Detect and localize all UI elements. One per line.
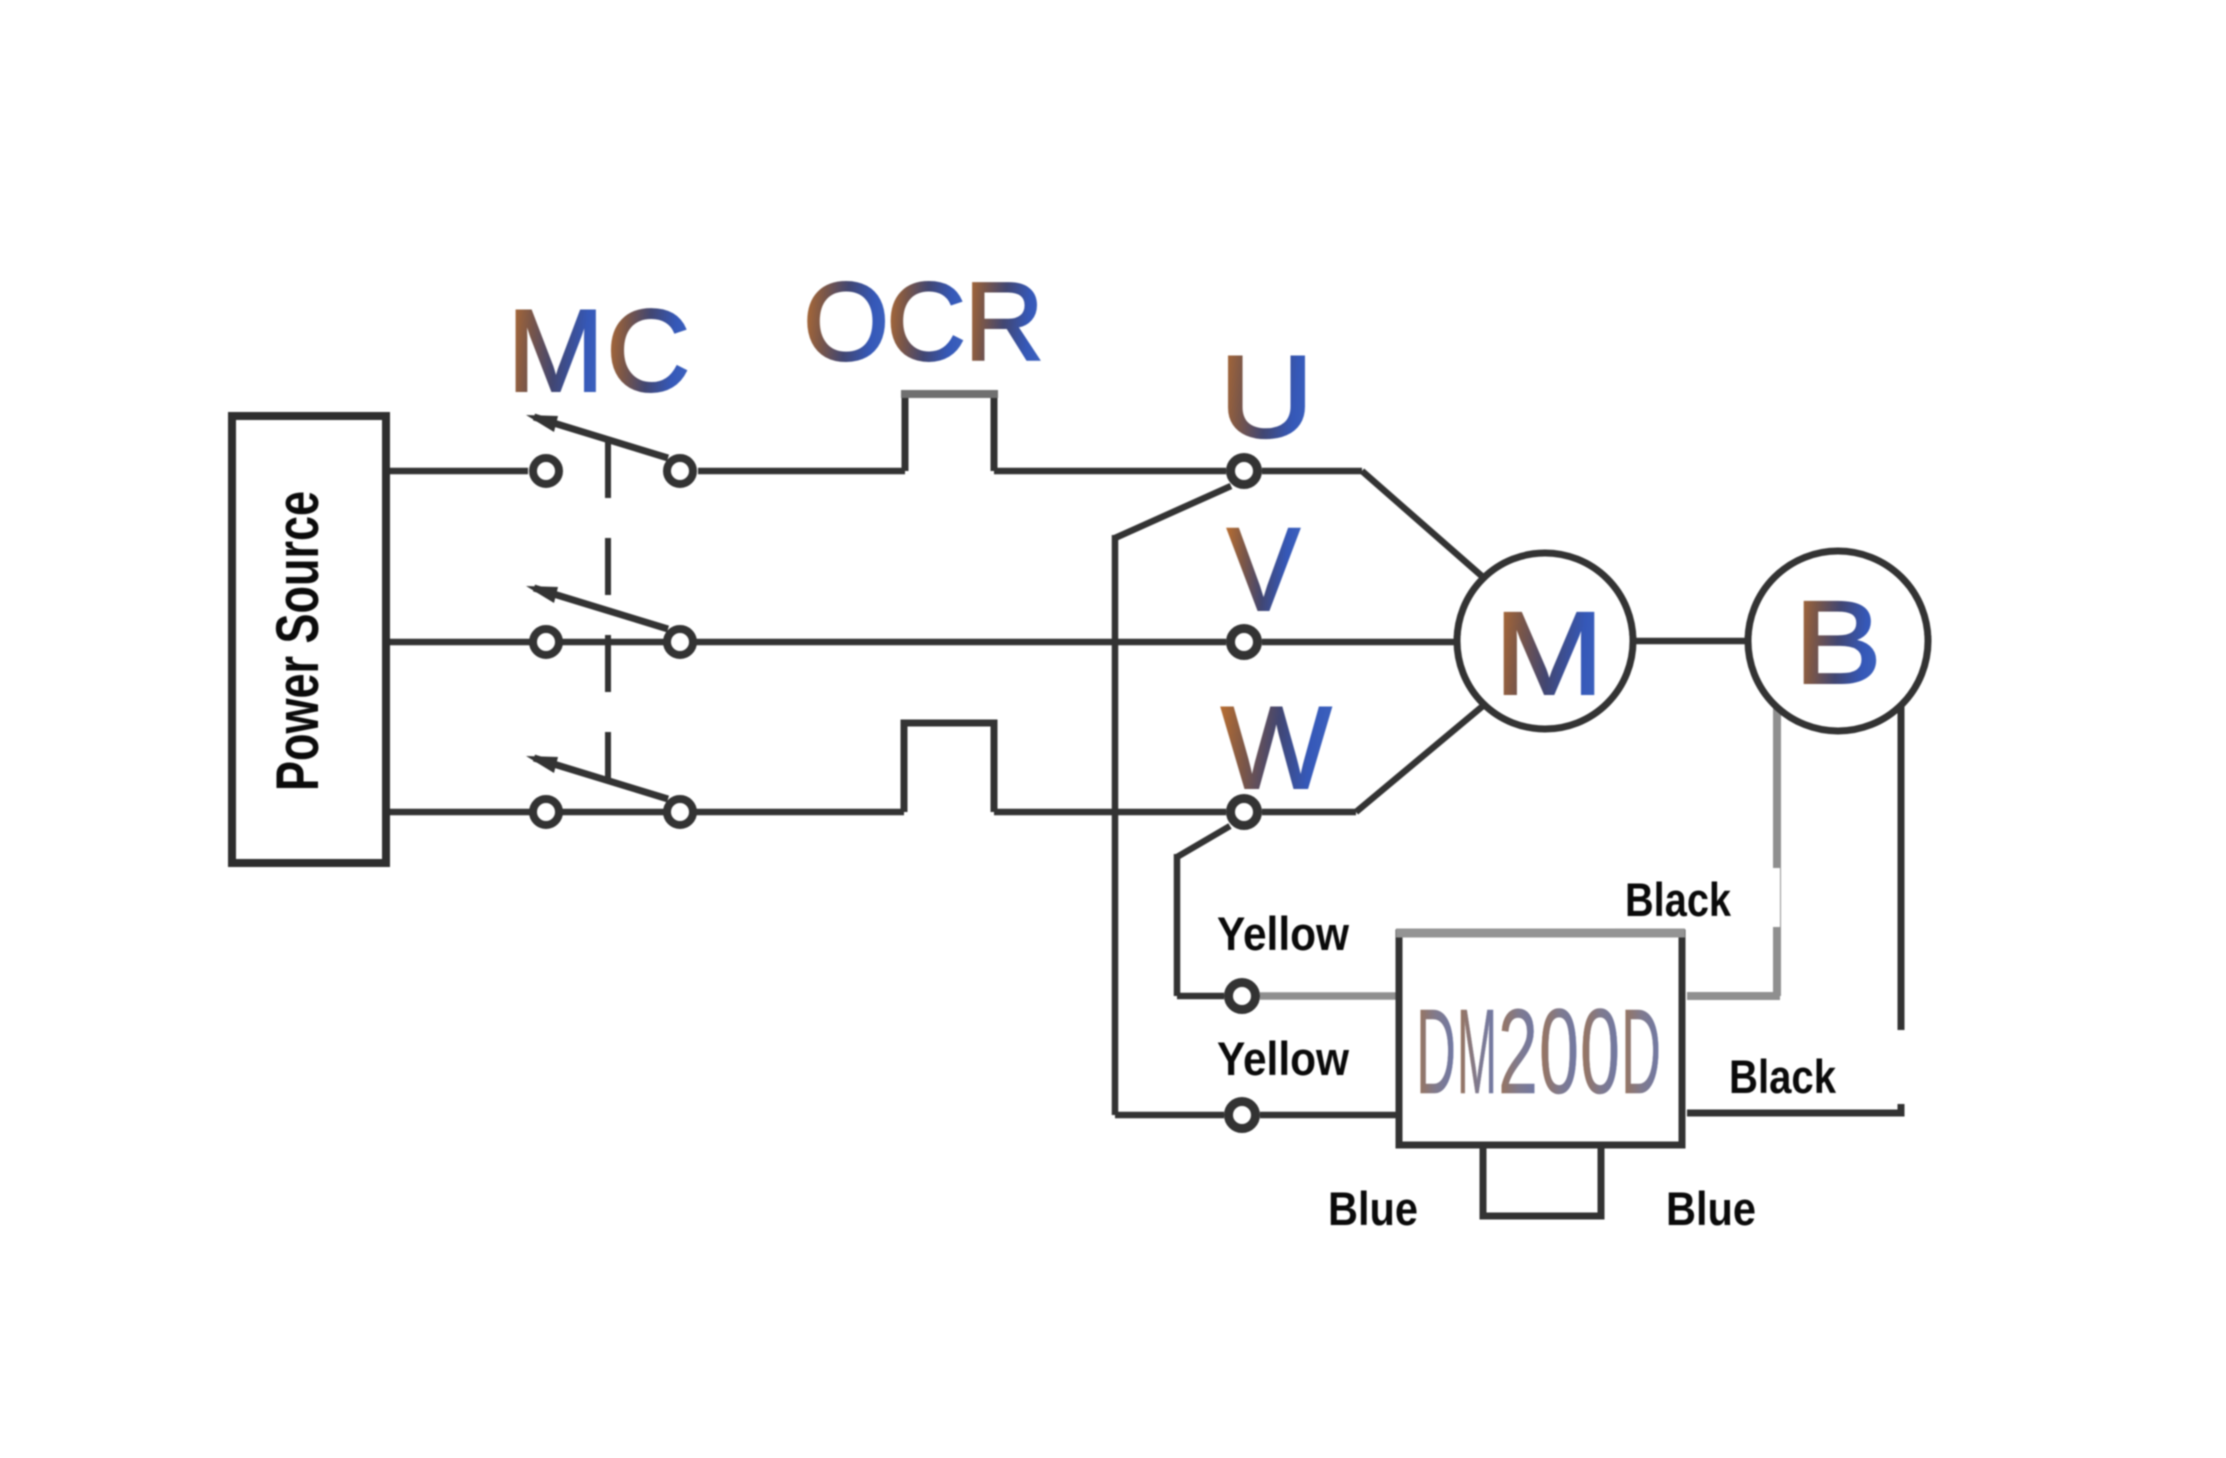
svg-text:Black: Black <box>1729 1050 1837 1103</box>
svg-text:M: M <box>1457 983 1497 1119</box>
svg-text:0: 0 <box>1580 983 1620 1119</box>
svg-text:B: B <box>1794 577 1882 709</box>
svg-text:U: U <box>1219 331 1314 462</box>
svg-text:Yellow: Yellow <box>1217 907 1349 960</box>
svg-text:C: C <box>886 260 966 384</box>
svg-text:M: M <box>1494 588 1604 720</box>
svg-text:D: D <box>1621 983 1661 1119</box>
svg-text:Blue: Blue <box>1328 1182 1418 1235</box>
svg-text:Blue: Blue <box>1666 1182 1756 1235</box>
svg-text:Black: Black <box>1625 873 1732 926</box>
svg-text:Power Source: Power Source <box>264 491 331 791</box>
svg-text:V: V <box>1227 504 1300 636</box>
svg-text:D: D <box>1416 983 1456 1119</box>
svg-text:O: O <box>803 260 889 384</box>
svg-text:M: M <box>507 285 604 416</box>
svg-text:Yellow: Yellow <box>1217 1032 1349 1085</box>
svg-text:W: W <box>1221 682 1332 813</box>
svg-text:R: R <box>964 260 1044 384</box>
svg-text:2: 2 <box>1498 983 1538 1119</box>
svg-text:0: 0 <box>1539 983 1579 1119</box>
svg-text:C: C <box>606 285 691 416</box>
